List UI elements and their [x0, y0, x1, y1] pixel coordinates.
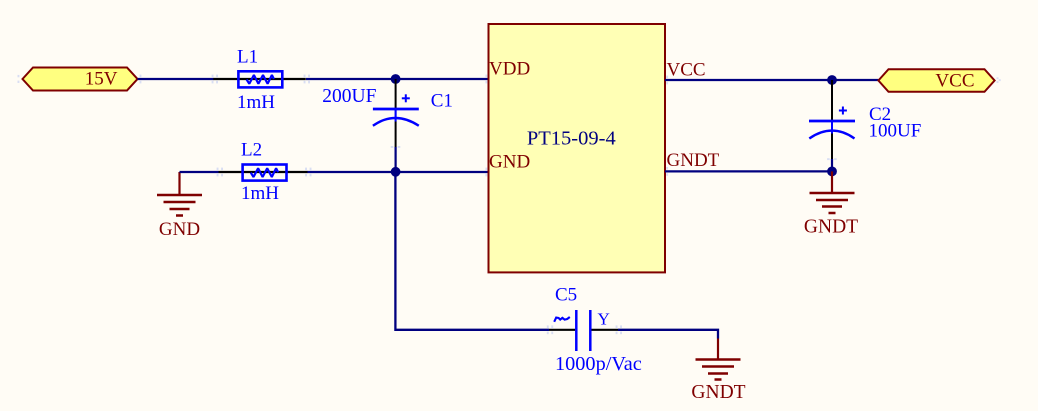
capacitor C5: [549, 285, 642, 376]
wire chip VCC pin to VCC port: [665, 79, 878, 81]
C1 curved negative plate: [373, 118, 419, 126]
C1 positive plate: [373, 108, 419, 111]
svg-text:VCC: VCC: [935, 71, 974, 92]
junction node GNDT net / C2 bottom: [827, 167, 837, 177]
L1 pins: [213, 78, 305, 80]
svg-text:200UF: 200UF: [322, 86, 376, 107]
svg-text:Y: Y: [598, 310, 610, 329]
op-amp/converter module U1 PT15-09-4: [489, 24, 720, 272]
ground GNDT right: [804, 171, 858, 237]
svg-text:GNDT: GNDT: [804, 217, 858, 238]
junction node 15V net / C1 top: [391, 74, 401, 84]
C2 positive plate: [809, 120, 855, 123]
svg-text:GNDT: GNDT: [691, 382, 745, 403]
ground GNDT bottom: [691, 339, 745, 404]
C1 plus sign: [402, 97, 410, 99]
wire GND net down and across to C5: [395, 172, 549, 330]
wire GND corner to L2 pin 1: [180, 171, 219, 173]
svg-text:L2: L2: [241, 140, 262, 161]
C5 right pin: [592, 329, 619, 331]
wire chip GNDT pin to C2 bottom: [665, 170, 832, 172]
C5 left pin: [549, 329, 575, 331]
svg-text:1mH: 1mH: [241, 183, 279, 204]
svg-text:15V: 15V: [85, 69, 118, 90]
capacitor C1: [322, 79, 453, 172]
C5 right plate: [589, 310, 592, 351]
C2 top pin: [831, 80, 833, 120]
ground GND: [157, 172, 202, 240]
port 15V: [23, 68, 138, 91]
C5 left plate: [575, 310, 578, 351]
L2 pins: [219, 171, 308, 173]
svg-text:GNDT: GNDT: [667, 150, 720, 171]
svg-text:GND: GND: [489, 152, 530, 173]
C1 bottom pin: [395, 122, 397, 148]
inductor L2: [219, 140, 308, 205]
svg-text:C1: C1: [431, 91, 453, 112]
svg-text:VDD: VDD: [489, 59, 530, 80]
capacitor C2: [809, 80, 921, 171]
port VCC: [878, 69, 994, 92]
inductor L1: [213, 47, 305, 114]
svg-text:GND: GND: [159, 219, 200, 240]
wire 15V port to L1 pin 1: [138, 78, 214, 80]
svg-text:1000p/Vac: 1000p/Vac: [555, 353, 642, 375]
svg-text:1mH: 1mH: [237, 92, 275, 113]
junction node VCC net / C2 top: [827, 75, 837, 85]
C2 plus sign: [839, 110, 847, 112]
pin hotspot markers: [18, 75, 1001, 335]
L2 body: [243, 165, 287, 181]
svg-text:C5: C5: [555, 285, 577, 306]
C2 bottom pin: [831, 134, 833, 160]
L1 body: [238, 71, 282, 87]
C2 curved negative plate: [809, 131, 854, 139]
svg-text:VCC: VCC: [667, 60, 706, 81]
wire L1 pin 2 to chip VDD pin: [306, 78, 489, 80]
wire C5 to GNDT ground corner: [618, 330, 718, 339]
svg-text:PT15-09-4: PT15-09-4: [527, 128, 616, 150]
wire L2 pin 2 to chip GND pin: [308, 171, 489, 173]
svg-text:L1: L1: [237, 47, 258, 68]
junction node GND net / C1 bottom: [391, 167, 401, 177]
C1 top pin: [395, 79, 397, 108]
C5 AC tilde mark: [554, 317, 570, 322]
svg-text:100UF: 100UF: [869, 121, 922, 142]
